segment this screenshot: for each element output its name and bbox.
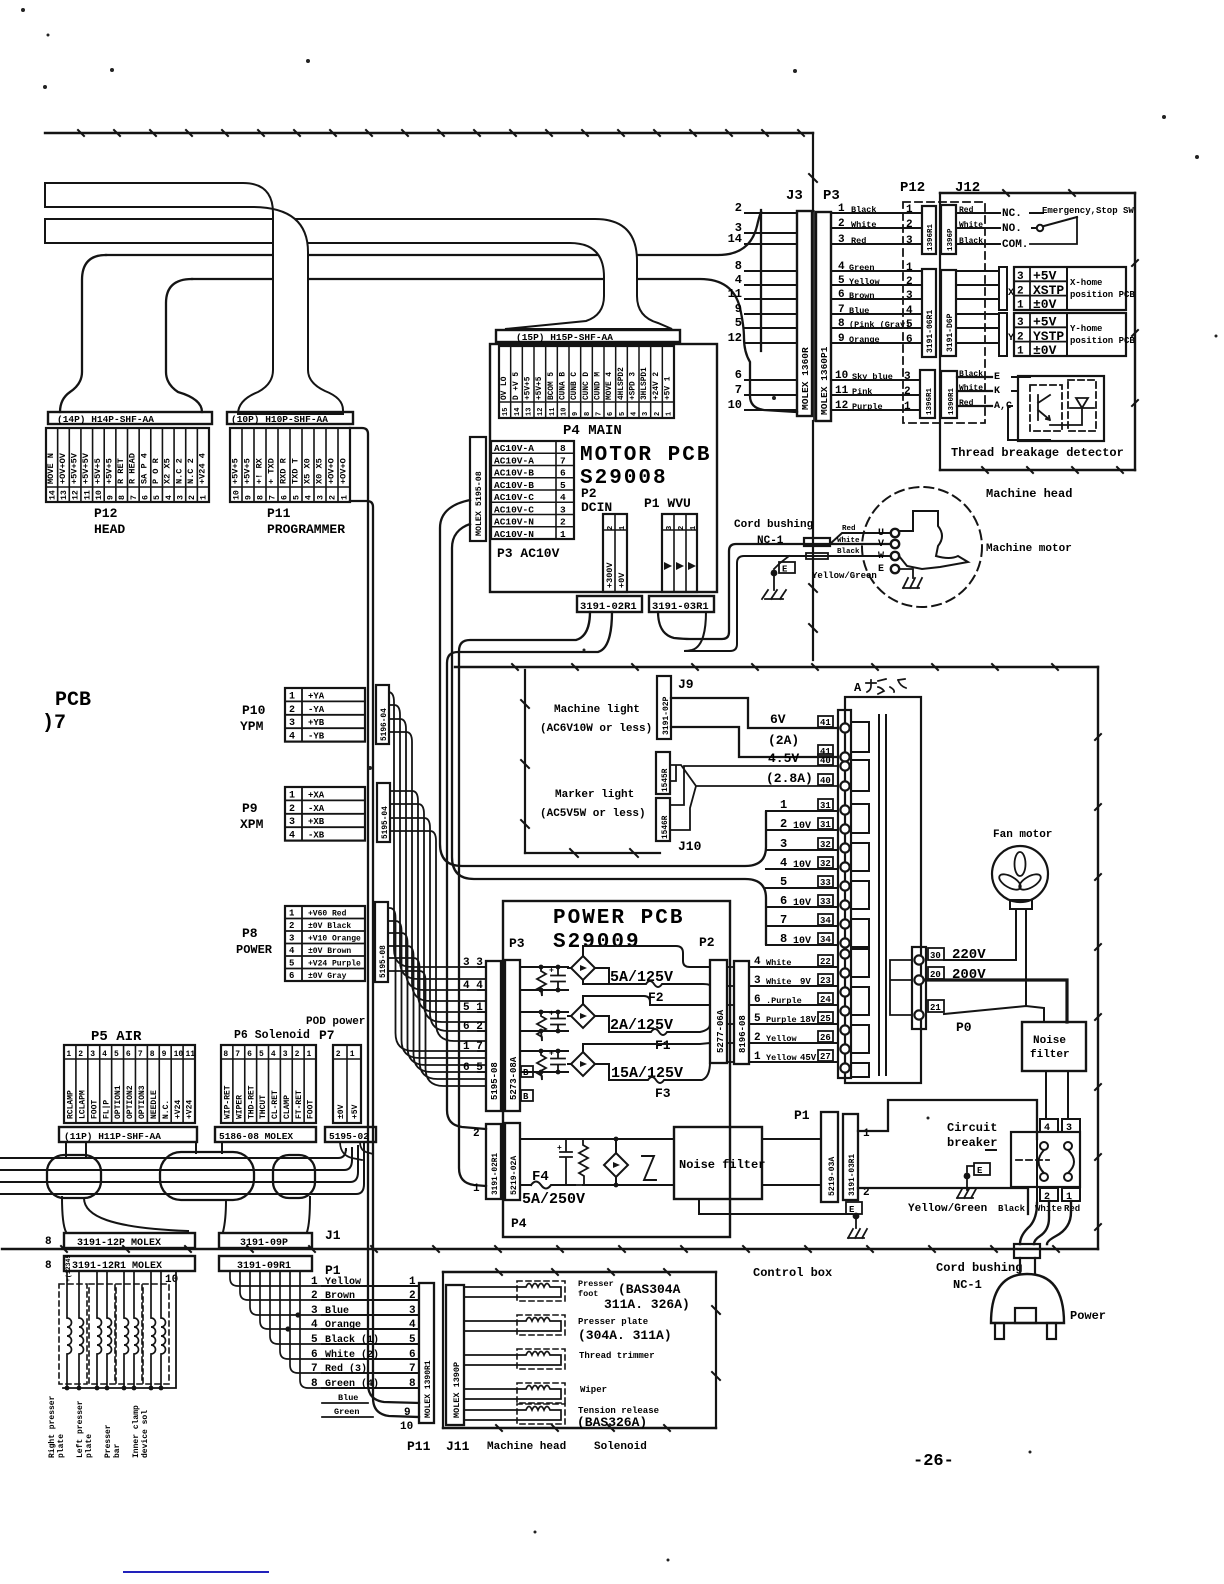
neck bars to bulb2 (196, 1142, 222, 1153)
svg-text:10: 10 (174, 1050, 184, 1059)
svg-text:5195-02: 5195-02 (329, 1131, 369, 1142)
connector bar (11P) H11P-SHF-AA (59, 1127, 197, 1142)
breaker terminal 1 (1062, 1188, 1080, 1201)
circuit breaker box (1011, 1132, 1080, 1187)
svg-text:White: White (766, 958, 792, 968)
svg-text:4: 4 (754, 956, 761, 968)
svg-text:(304A. 311A): (304A. 311A) (578, 1328, 672, 1343)
svg-text:Inner clamp: Inner clamp (132, 1405, 141, 1458)
svg-text:5: 5 (906, 319, 913, 331)
svg-text:11: 11 (728, 287, 742, 301)
solenoid coil 4 (143, 1284, 169, 1384)
svg-text:3191-06R1: 3191-06R1 (926, 310, 935, 353)
wires to bottom noise filter (616, 1139, 674, 1185)
svg-text:5: 5 (289, 959, 294, 969)
svg-text:Purple: Purple (852, 402, 883, 412)
svg-text:(AC5V5W or less): (AC5V5W or less) (540, 808, 646, 820)
svg-text:3: 3 (289, 934, 294, 944)
svg-text:9: 9 (404, 1407, 411, 1419)
solenoid coil 2 (89, 1284, 115, 1384)
connector bar J9 3191-02P (657, 676, 671, 739)
svg-text:14: 14 (728, 232, 742, 246)
svg-text:3191-12P MOLEX: 3191-12P MOLEX (77, 1238, 161, 1249)
svg-text:40: 40 (820, 776, 831, 786)
svg-text:7: 7 (409, 1363, 416, 1375)
svg-text:-XA: -XA (308, 804, 325, 814)
svg-text:24: 24 (820, 995, 831, 1005)
svg-text:-26-: -26- (913, 1452, 954, 1471)
svg-text:21: 21 (930, 1003, 941, 1013)
svg-text:7: 7 (838, 304, 845, 316)
svg-text:3: 3 (283, 1050, 288, 1059)
svg-text:2: 2 (780, 817, 787, 831)
tap 3 (766, 849, 838, 851)
svg-text:Machine light: Machine light (554, 704, 640, 716)
control box bottom boundary chain line (2, 1248, 1098, 1250)
svg-text:COM.: COM. (1002, 239, 1028, 251)
svg-text:5: 5 (293, 495, 302, 500)
neck bulb1 to 3191-12P (62, 1197, 188, 1232)
tap boxes 41 41 40 40 (818, 716, 833, 727)
svg-text:4: 4 (271, 1050, 276, 1059)
svg-text:CLAMP: CLAMP (283, 1095, 292, 1119)
svg-text:±0V: ±0V (1033, 297, 1057, 312)
svg-text:12: 12 (835, 400, 848, 412)
connector bar MOLEX 5195-08 (470, 437, 486, 541)
svg-text:33: 33 (820, 897, 831, 907)
svg-text:RXD R: RXD R (278, 457, 288, 484)
svg-text:P0: P0 (956, 1020, 972, 1035)
svg-text:P6 Solenoid: P6 Solenoid (234, 1029, 310, 1042)
Y-home position PCB block (1014, 313, 1126, 356)
cord bushing symbol (804, 538, 830, 546)
svg-text:1390R1: 1390R1 (948, 387, 956, 415)
svg-text:2: 2 (409, 1290, 416, 1302)
svg-text:12: 12 (537, 408, 545, 416)
solenoid 3 (517, 1349, 565, 1369)
svg-text:(AC6V10W or less): (AC6V10W or less) (540, 723, 652, 735)
wires P7 into long bundle (340, 1142, 373, 1160)
tap 7 (766, 925, 838, 927)
tap 6 (766, 906, 838, 908)
svg-text:Machine head: Machine head (487, 1441, 566, 1453)
rectifier channel F2 (520, 966, 568, 968)
svg-text:1: 1 (619, 525, 627, 530)
svg-text:WIPER: WIPER (235, 1095, 244, 1119)
svg-text:F3: F3 (655, 1086, 671, 1101)
connector bar 5195-08 (power P3) (486, 961, 501, 1111)
svg-text:+: + (549, 1010, 554, 1019)
svg-text:34: 34 (820, 935, 831, 945)
svg-text:6V: 6V (770, 712, 786, 727)
svg-text:P1: P1 (794, 1108, 810, 1123)
cord bushing NC-1 (power) (1014, 1244, 1040, 1258)
svg-text:F1: F1 (655, 1038, 671, 1053)
svg-text:Presser: Presser (104, 1424, 113, 1458)
svg-text:6: 6 (607, 412, 615, 416)
svg-text:NO.: NO. (1002, 223, 1022, 235)
svg-text:+5V+5: +5V+5 (525, 376, 533, 400)
svg-text:AC10V-B: AC10V-B (494, 480, 534, 491)
connector bar (15P) H15P-SHF-AA (496, 330, 680, 342)
svg-text:XPM: XPM (240, 817, 264, 832)
svg-text:Brown: Brown (325, 1291, 355, 1302)
svg-text:Purple: Purple (766, 1015, 797, 1025)
svg-text:P2: P2 (699, 935, 715, 950)
motor winding shape (899, 511, 968, 569)
connector bar 3191-D6P (X/Y J12 side) (941, 270, 956, 356)
svg-text:DCIN: DCIN (581, 500, 612, 515)
machine head solenoid box (443, 1271, 716, 1273)
transformer core lines (878, 715, 880, 1075)
connector bar 1396R1 (detector P12 side) (920, 370, 935, 418)
svg-text:AC10V-C: AC10V-C (494, 504, 534, 515)
svg-text:3191-03R1: 3191-03R1 (849, 1154, 857, 1196)
connector bar 1390R1 (detector J12 side) (941, 371, 957, 418)
svg-text:POWER PCB: POWER PCB (553, 907, 684, 930)
svg-text:2: 2 (607, 525, 615, 530)
svg-text:4: 4 (305, 495, 314, 500)
svg-text:BCOM 5: BCOM 5 (548, 372, 556, 400)
svg-text:4: 4 (560, 492, 566, 503)
lights box (524, 670, 526, 853)
tap 5 (766, 887, 838, 889)
svg-text:NC-1: NC-1 (953, 1278, 982, 1292)
terminal 30 220V (928, 948, 944, 960)
wires P8 to power pcb P3 (388, 908, 486, 1086)
svg-text:(10P) H10P-SHF-AA: (10P) H10P-SHF-AA (231, 414, 328, 425)
svg-text:Machine motor: Machine motor (986, 543, 1072, 555)
connector bar 5219-03A (821, 1112, 838, 1202)
svg-text:+! RX: +! RX (254, 457, 264, 484)
svg-text:+5V: +5V (351, 1104, 360, 1119)
svg-text:(2.8A): (2.8A) (766, 771, 813, 786)
svg-text:(11P) H11P-SHF-AA: (11P) H11P-SHF-AA (64, 1131, 161, 1142)
svg-text:Black: Black (959, 237, 983, 246)
svg-text:MOVE 4: MOVE 4 (606, 372, 614, 400)
svg-text:4: 4 (165, 495, 174, 500)
svg-text:PROGRAMMER: PROGRAMMER (267, 522, 345, 537)
power cord (1036, 1139, 1038, 1203)
svg-text:8: 8 (735, 259, 742, 273)
svg-text:P7: P7 (319, 1028, 335, 1043)
svg-text:26: 26 (820, 1033, 831, 1043)
svg-text:2: 2 (654, 412, 662, 416)
cable bundle into P4 MAIN 15P connector (filled) (45, 219, 672, 329)
svg-text:2: 2 (735, 201, 742, 215)
connector table P4 MAIN (499, 346, 674, 418)
connector table P1 WVU (662, 514, 697, 592)
svg-text:10: 10 (95, 490, 104, 500)
svg-text:5: 5 (780, 875, 787, 889)
wires J10 to transformer 4.5V taps (670, 765, 838, 830)
solenoid common bus (63, 1271, 176, 1388)
svg-text:P11: P11 (267, 506, 291, 521)
svg-text:8: 8 (780, 932, 787, 946)
svg-text:27: 27 (820, 1052, 831, 1062)
svg-text:A: A (854, 681, 862, 695)
svg-text:+V24 4: +V24 4 (198, 453, 208, 484)
svg-text:POD power: POD power (306, 1016, 365, 1028)
svg-text:+300V: +300V (605, 562, 615, 588)
[E] ground near breaker (964, 1173, 971, 1180)
motor terminals U V W E (891, 529, 899, 537)
wire row 2 Brown (322, 1299, 419, 1301)
svg-text:12: 12 (72, 490, 81, 500)
svg-text:E: E (878, 564, 884, 575)
svg-text:THD-RET: THD-RET (247, 1085, 256, 1119)
ground wire from noise filter bottom (699, 1199, 852, 1214)
svg-text:AC10V-B: AC10V-B (494, 468, 534, 479)
svg-text:Brown: Brown (849, 291, 875, 301)
svg-text:3191-12R1 MOLEX: 3191-12R1 MOLEX (72, 1261, 162, 1272)
svg-text:.Purple: .Purple (766, 996, 802, 1006)
wire 200V (thick) to bottom noise filter (926, 980, 1067, 1022)
svg-text:3HLSPD1: 3HLSPD1 (641, 367, 649, 400)
svg-text:+SPD 3: +SPD 3 (630, 372, 638, 400)
svg-text:-YA: -YA (308, 705, 325, 715)
svg-text:+OV+O: +OV+O (326, 458, 336, 484)
svg-text:+24V 2: +24V 2 (653, 372, 661, 400)
svg-text:position PCB: position PCB (1070, 336, 1135, 346)
connector bar 5195-02 (325, 1127, 376, 1142)
svg-text:3: 3 (409, 1305, 416, 1317)
wires P3 to P12 rows 1-3 (831, 212, 922, 214)
wire row 5 Black (1) (322, 1343, 419, 1345)
svg-text:breaker: breaker (947, 1136, 997, 1150)
svg-text:5195-08: 5195-08 (380, 945, 388, 978)
connector bar 5277-06A (710, 960, 727, 1063)
connector table P10 YPM (285, 688, 365, 742)
svg-text:FL|P: FL|P (102, 1100, 111, 1119)
svg-text:8196-08: 8196-08 (738, 1015, 748, 1053)
tap 26 (749, 1042, 838, 1044)
svg-text:45V: 45V (800, 1053, 817, 1063)
svg-text:25: 25 (820, 1014, 831, 1024)
svg-text:15: 15 (502, 408, 510, 416)
svg-text:bar: bar (113, 1443, 122, 1458)
connector bar 3191-02R1 (577, 596, 642, 612)
svg-text:Power: Power (1070, 1309, 1106, 1323)
ground symbol (762, 576, 786, 599)
svg-text:+5V+5: +5V+5 (242, 458, 252, 484)
svg-text:8: 8 (45, 1236, 52, 1248)
svg-text:Red (3): Red (3) (325, 1363, 367, 1375)
svg-text:1545R: 1545R (662, 768, 670, 792)
svg-text:MOLEX 5195-08: MOLEX 5195-08 (475, 471, 484, 536)
connector bar 5273-08A (505, 960, 520, 1111)
svg-text:)7: )7 (42, 712, 66, 735)
svg-text:9: 9 (162, 1050, 167, 1059)
svg-text:1: 1 (904, 401, 911, 413)
svg-text:1396R1: 1396R1 (926, 387, 934, 415)
svg-text:31: 31 (820, 820, 831, 830)
svg-text:8: 8 (257, 495, 266, 500)
svg-text:10: 10 (233, 490, 242, 500)
svg-text:(2A): (2A) (768, 733, 799, 748)
connector bar 3191-12R1 MOLEX (64, 1256, 195, 1271)
svg-text:(Pink (Gray): (Pink (Gray) (849, 320, 910, 330)
connector bar 3191-09P (219, 1233, 312, 1248)
svg-text:6: 6 (735, 368, 742, 382)
svg-text:J9: J9 (678, 677, 694, 692)
connector bar 3191-12P MOLEX (64, 1233, 195, 1248)
wire row 7 Red (3) (322, 1372, 419, 1374)
svg-text:2: 2 (295, 1050, 300, 1059)
svg-text:Emergency,Stop SW: Emergency,Stop SW (1042, 206, 1134, 216)
cable grommet bulb 2 (160, 1152, 254, 1200)
svg-text:3191-09R1: 3191-09R1 (237, 1261, 291, 1272)
svg-text:device sol: device sol (141, 1410, 150, 1458)
motor PCB S29008 box (490, 344, 717, 592)
svg-text:1: 1 (1017, 300, 1024, 312)
wire cable pair P12 head to J3 trumpet (106, 212, 761, 255)
svg-text:+5V+5V: +5V+5V (81, 452, 91, 484)
connector bar 5186-08 MOLEX (215, 1127, 316, 1142)
svg-text:5: 5 (560, 480, 566, 491)
svg-text:MOLEX 1360R: MOLEX 1360R (800, 347, 811, 410)
svg-text:AC10V-C: AC10V-C (494, 492, 534, 503)
svg-text:9: 9 (735, 302, 742, 316)
svg-text:1546R: 1546R (662, 815, 670, 839)
wire row 8 Green (4) (322, 1387, 419, 1389)
svg-text:7: 7 (560, 455, 566, 466)
svg-text:Sky blue: Sky blue (852, 372, 893, 382)
svg-text:+5V+5: +5V+5 (104, 458, 114, 484)
svg-text:1: 1 (754, 1051, 761, 1063)
svg-text:32: 32 (820, 840, 831, 850)
wires P12/J12 home sensors rows 1-6 (956, 270, 999, 272)
svg-text:N.C.: N.C. (162, 1100, 171, 1119)
svg-text:10V: 10V (793, 821, 811, 832)
svg-text:41: 41 (820, 718, 831, 728)
svg-text:3: 3 (754, 975, 761, 987)
svg-text:CL-RET: CL-RET (271, 1090, 280, 1119)
svg-text:Green: Green (334, 1407, 360, 1417)
rectifier channel F3 (520, 1050, 568, 1052)
svg-text:34: 34 (820, 916, 831, 926)
svg-text:+V24 Purple: +V24 Purple (308, 960, 361, 969)
svg-text:+YB: +YB (308, 718, 325, 728)
svg-text:Yellow: Yellow (766, 1034, 798, 1044)
emergency stop switch (1030, 212, 1043, 214)
svg-text:5196-04: 5196-04 (381, 708, 389, 741)
svg-text:8: 8 (150, 1050, 155, 1059)
breaker terminal 4 (1040, 1119, 1058, 1132)
svg-text:4: 4 (780, 856, 787, 870)
connector bar (14P) H14P-SHF-AA (48, 412, 212, 424)
connector bar J3 MOLEX 1360R (797, 211, 812, 416)
svg-text:B: B (523, 1068, 529, 1078)
blue underline mark (124, 1571, 268, 1573)
connector bar 8196-08 (734, 961, 749, 1064)
solenoid 2 (517, 1315, 565, 1335)
svg-text:4HLSPD2: 4HLSPD2 (618, 367, 626, 400)
connector bar (10P) H10P-SHF-AA (227, 412, 353, 424)
svg-text:7: 7 (735, 383, 742, 397)
svg-text:10V: 10V (793, 860, 811, 871)
transformer primary bar (838, 710, 851, 1078)
svg-text:+5V+5: +5V+5 (230, 458, 240, 484)
solenoid coil 1 (59, 1284, 87, 1384)
svg-text:Y-home: Y-home (1070, 324, 1102, 334)
svg-text:P4 MAIN: P4 MAIN (563, 423, 622, 439)
connector table P9 XPM (285, 787, 365, 841)
svg-text:2: 2 (906, 276, 913, 288)
control box top boundary chain line (455, 666, 1098, 668)
phototransistor symbol (1038, 395, 1050, 420)
svg-text:E: E (994, 372, 1000, 383)
terminal 20 200V (928, 967, 944, 979)
svg-text:2: 2 (289, 921, 294, 931)
svg-text:4.5V: 4.5V (768, 751, 799, 766)
svg-text:OPTION1: OPTION1 (114, 1085, 123, 1119)
svg-text:Red: Red (842, 525, 856, 533)
wire row 4 Orange (322, 1328, 419, 1330)
noise filter box (right) (1022, 1022, 1086, 1071)
svg-text:4: 4 (906, 305, 913, 317)
svg-text:MOTOR PCB: MOTOR PCB (580, 444, 711, 467)
svg-text:Solenoid: Solenoid (594, 1441, 647, 1453)
svg-text:+ TXD: + TXD (266, 458, 276, 484)
breaker contacts (1039, 1150, 1045, 1173)
svg-text:2: 2 (329, 495, 338, 500)
svg-text:Marker light: Marker light (555, 789, 634, 801)
svg-text:3: 3 (90, 1050, 95, 1059)
svg-text:Blue: Blue (325, 1305, 349, 1317)
wires J9 to transformer 6V taps (671, 698, 838, 728)
e-stop wires NC NO COM (956, 212, 1000, 214)
svg-text:X5 X0: X5 X0 (302, 458, 312, 484)
neck bulb3 to 3191-09P (223, 1197, 310, 1232)
svg-text:Green: Green (849, 263, 875, 273)
fan-out wires from 3191-09R1 to P1 rows (230, 1271, 373, 1417)
svg-text:Black: Black (959, 370, 983, 379)
long wire from programmer area down to solenoid rows (350, 428, 419, 1403)
wires J3 left pins (745, 213, 797, 410)
connector bar MOLEX 1390R1 (419, 1283, 434, 1423)
svg-text:3: 3 (838, 234, 845, 246)
fan motor symbol (992, 846, 1048, 902)
svg-text:8: 8 (560, 443, 566, 454)
tap 27 (749, 1061, 838, 1063)
svg-text:S29009: S29009 (553, 931, 641, 954)
svg-text:Yellow/Green: Yellow/Green (908, 1203, 987, 1215)
svg-text:22: 22 (820, 957, 831, 967)
svg-text:2: 2 (906, 219, 913, 231)
svg-text:6: 6 (780, 894, 787, 908)
svg-text:+V24: +V24 (174, 1100, 183, 1119)
svg-text:(BAS304A: (BAS304A (618, 1282, 681, 1297)
svg-text:YPM: YPM (240, 719, 264, 734)
svg-text:1: 1 (780, 798, 787, 812)
svg-text:±0V Gray: ±0V Gray (308, 972, 347, 981)
svg-text:P4: P4 (511, 1216, 527, 1231)
svg-text:-XB: -XB (308, 831, 325, 841)
wires P3 to P12 rows 4-9 (831, 270, 922, 272)
svg-text:P3 AC10V: P3 AC10V (497, 546, 560, 561)
svg-text:R RET: R RET (116, 458, 126, 484)
bracket X (999, 267, 1007, 310)
svg-text:±0V: ±0V (1033, 343, 1057, 358)
svg-text:Left presser: Left presser (76, 1400, 85, 1458)
svg-text:+V10 Orange: +V10 Orange (308, 935, 361, 944)
svg-text:OV LO: OV LO (501, 376, 509, 400)
connector bar 3191-06R1 (X/Y P12 side) (922, 269, 936, 357)
svg-text:Blue: Blue (338, 1393, 358, 1403)
svg-text:+YA: +YA (308, 691, 325, 701)
svg-text:1: 1 (341, 495, 350, 500)
